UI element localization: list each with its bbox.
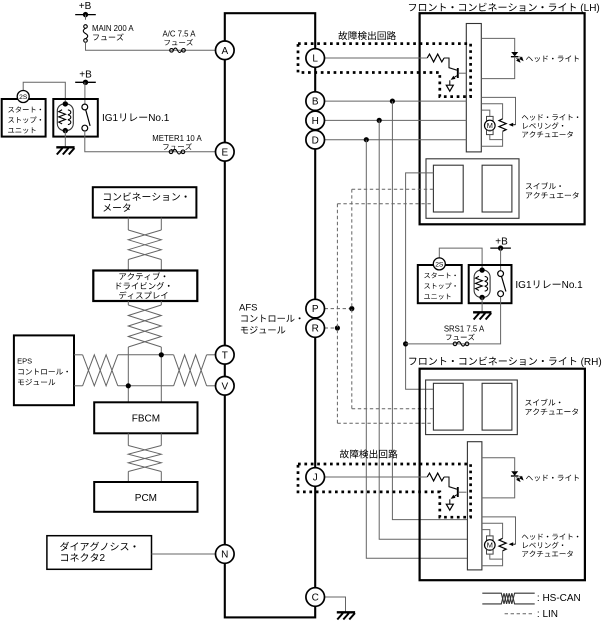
wire +B to MAIN fuse [85, 15, 87, 20]
head light LED LH [481, 38, 514, 52]
svg-text:T: T [222, 350, 228, 361]
node D [306, 130, 325, 149]
legend HS-CAN twisted pair symbol [482, 593, 534, 604]
wire node C to ground [325, 597, 346, 612]
connector strip RH [467, 442, 482, 570]
box relay IG1 No.1 (left) [53, 99, 98, 137]
junction LIN P [349, 306, 354, 311]
wire node H to LH strip [325, 119, 467, 121]
relay switch (left) [82, 104, 88, 110]
wire MAIN fuse to node A [86, 42, 216, 50]
label swivel actuator RH [525, 400, 531, 406]
svg-text:: HS-CAN: : HS-CAN [537, 593, 581, 604]
box combination meter [93, 187, 197, 217]
wire relay coil to ground (left) [64, 131, 66, 147]
svg-text:SRS1 7.5 A: SRS1 7.5 A [444, 324, 485, 333]
svg-text:No.1: No.1 [148, 113, 170, 124]
label start-stop unit (right) [424, 273, 430, 278]
fault detection circuit LH (resistor R, transistor Q, open ground) [427, 54, 444, 62]
svg-text:A/C 7.5 A: A/C 7.5 A [163, 29, 197, 38]
label active driving display [119, 273, 126, 279]
box start-stop unit (left) [2, 99, 46, 137]
svg-text:PCM: PCM [135, 493, 157, 504]
wire LIN R to RH swivel (dashed) [337, 422, 433, 424]
wire D branch to RH strip [366, 140, 467, 559]
svg-text:+B: +B [79, 69, 92, 80]
svg-text:2S: 2S [19, 94, 28, 101]
box front combination light LH [420, 13, 585, 224]
box active driving display [93, 271, 197, 302]
wire node J to fault resistor [325, 476, 428, 478]
svg-text:+B: +B [79, 1, 92, 12]
twist EPS pair right [174, 355, 207, 386]
wire LIN R vertical (dashed) [336, 204, 338, 423]
node N [216, 545, 235, 564]
svg-text:D: D [312, 135, 319, 146]
wire node L to fault resistor [325, 57, 428, 59]
label front combination light RH title [409, 358, 416, 365]
fuse MAIN 200 A [84, 25, 88, 29]
box front combination light RH [420, 369, 585, 581]
node R [306, 319, 325, 338]
box FBCM [94, 402, 197, 433]
node A [216, 41, 235, 60]
box swivel actuator LH [426, 159, 519, 219]
head light LED RH [481, 458, 514, 472]
relay switch (right) [498, 271, 504, 277]
fuse A/C 7.5 A [170, 49, 174, 53]
box relay IG1 No.1 (right) [469, 265, 512, 303]
fault detection circuit RH (resistor R, transistor Q, open ground) [427, 473, 444, 481]
label head light LH [526, 57, 533, 62]
junction CAN-L at bus pair [126, 383, 131, 388]
junction B branch [390, 99, 395, 104]
box diagnosis connector 2 [47, 536, 152, 570]
svg-text:No.1: No.1 [562, 280, 584, 291]
wire CAN-H EPS to node T [74, 354, 83, 356]
leveling actuator LH (motor M, potentiometer) [481, 97, 515, 124]
wire CAN pair meter to display [127, 218, 129, 230]
connector 2S (left) [17, 91, 29, 103]
wire +B to relay switch (right) [500, 248, 502, 271]
node E [216, 143, 235, 162]
label front combination light LH title [409, 4, 416, 11]
wire 2S to relay coil (left) [23, 82, 65, 101]
junction D branch [364, 137, 369, 142]
junction swivel feed at SRS1 fuse [403, 341, 408, 346]
connector 2S (right) [433, 258, 445, 270]
wire LIN P to LH swivel (dashed) [352, 188, 434, 190]
leveling actuator RH (motor M, potentiometer) [481, 517, 515, 544]
label head light RH [526, 476, 533, 481]
wire LIN R to LH swivel (dashed) [337, 203, 433, 205]
box EPS control module [14, 335, 74, 405]
dotted box fault detection RH [298, 464, 471, 517]
svg-text:2S: 2S [435, 261, 444, 268]
svg-text:A: A [221, 46, 228, 57]
wire LIN from node R (dashed) [325, 327, 338, 329]
junction LIN R [335, 325, 340, 330]
svg-text:IG1: IG1 [515, 280, 532, 291]
svg-text:R: R [312, 324, 319, 335]
box swivel actuator RH [426, 380, 518, 435]
svg-text:B: B [312, 97, 319, 108]
label diagnosis connector 2 [60, 542, 69, 551]
label fault detection circuit LH [338, 31, 347, 40]
wire CAN pair display to FBCM [127, 301, 129, 305]
svg-text:2: 2 [100, 553, 106, 564]
ground right relay [473, 311, 491, 313]
node C [306, 588, 325, 607]
relay coil (left) [57, 104, 73, 131]
label combination meter [104, 194, 111, 201]
junction CAN-H at bus pair [159, 352, 164, 357]
wire diagnosis connector to node N [152, 553, 216, 555]
label start-stop unit (left) [8, 107, 14, 112]
svg-text:METER1 10 A: METER1 10 A [152, 134, 202, 143]
wire node B to LH strip [325, 100, 467, 102]
label fault detection circuit RH [340, 449, 349, 458]
ground left relay [56, 146, 74, 148]
svg-text:V: V [221, 381, 228, 392]
svg-text:M: M [487, 541, 493, 550]
wire relay coil to ground (right) [481, 297, 483, 312]
wire LIN from node P (dashed) [325, 308, 352, 310]
svg-text:E: E [221, 147, 228, 158]
label head light leveling actuator RH [522, 535, 529, 539]
svg-text:N: N [221, 550, 228, 561]
node V [216, 377, 235, 396]
node J [306, 468, 325, 487]
wire CAN-L EPS to node V [74, 385, 83, 387]
svg-text:(RH): (RH) [581, 357, 602, 368]
wire relay switch to SRS1 fuse [406, 297, 501, 344]
ground node C [337, 611, 355, 613]
node L [306, 49, 325, 68]
box start-stop unit (right) [418, 265, 462, 303]
wire H branch to RH strip [379, 120, 467, 539]
wire LIN P to RH swivel (dashed) [352, 408, 434, 410]
svg-text:M: M [487, 121, 493, 130]
wire LIN P vertical (dashed) [351, 189, 353, 409]
svg-text:H: H [312, 116, 319, 127]
svg-text:J: J [313, 473, 318, 484]
twist EPS pair left [83, 355, 118, 386]
svg-text:EPS: EPS [17, 356, 32, 365]
node P [306, 299, 325, 318]
svg-text:MAIN 200 A: MAIN 200 A [92, 24, 134, 33]
wire B branch to RH strip [392, 101, 467, 519]
svg-text:IG1: IG1 [102, 113, 119, 124]
wire 2S to relay coil (right) [439, 248, 482, 267]
legend LIN dashed symbol [505, 613, 535, 615]
node T [216, 346, 235, 365]
wire relay switch to node E [85, 131, 216, 152]
junction H branch [377, 118, 382, 123]
wire CAN pair FBCM to PCM [127, 433, 129, 445]
svg-text:: LIN: : LIN [537, 609, 558, 620]
relay coil (right) [474, 270, 490, 297]
svg-text:P: P [312, 304, 319, 315]
node B [306, 92, 325, 111]
label head light leveling actuator LH [522, 115, 529, 119]
svg-text:L: L [312, 54, 318, 65]
svg-text:AFS: AFS [239, 303, 257, 314]
connector strip LH [466, 24, 481, 152]
svg-text:FBCM: FBCM [132, 414, 160, 425]
fuse METER1 10 A [169, 150, 173, 154]
wire swivel power feed (SRS1 fuse to LH and RH swivel actuators) [406, 173, 434, 389]
fuse SRS1 7.5 A [453, 342, 457, 346]
svg-text:C: C [312, 593, 319, 604]
wire node D to LH strip [325, 139, 467, 141]
wire +B to relay switch (left) [84, 82, 86, 104]
node H [306, 111, 325, 130]
label swivel actuator LH [526, 183, 532, 189]
box PCM [94, 482, 197, 512]
dotted box fault detection LH [298, 44, 471, 97]
wire main bus loop (AFS control module pins A/E/T/V/N and L/B/H/D/P/R/J/C) [225, 13, 315, 617]
